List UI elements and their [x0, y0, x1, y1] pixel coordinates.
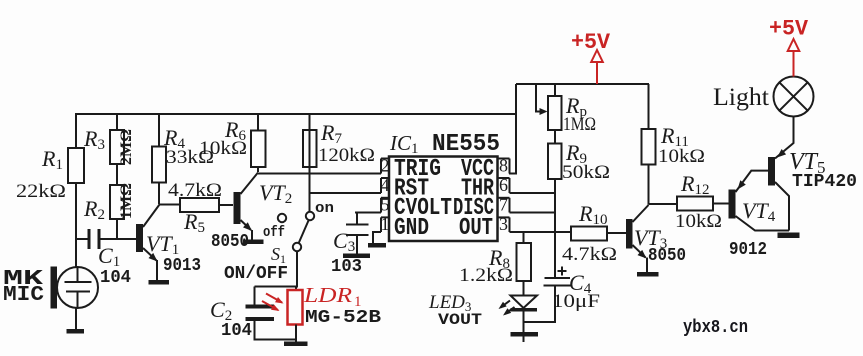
resistor R1 — [68, 114, 84, 268]
op-amp U1 body: IC1 NE555 box — [389, 157, 498, 242]
label VT4 — [742, 198, 776, 225]
label IC1 NE555 — [389, 131, 500, 158]
value MG-52B — [305, 308, 381, 328]
svg-text:4: 4 — [381, 175, 390, 195]
value 9013 — [163, 256, 201, 276]
svg-text:1MΩ: 1MΩ — [118, 183, 135, 219]
label Rp — [565, 93, 587, 120]
svg-text:TIP420: TIP420 — [792, 172, 857, 192]
label LDR1 — [303, 283, 362, 310]
label R12 — [680, 171, 709, 198]
label R10 — [578, 201, 607, 228]
capacitor C3 — [346, 213, 381, 255]
value 120k&#937; — [318, 145, 375, 166]
svg-text:R1: R1 — [41, 146, 63, 173]
svg-text:on: on — [315, 200, 334, 217]
wire VCC drop to pin 8 — [509, 84, 516, 174]
power +5V (right) — [769, 17, 809, 77]
label R2 — [83, 196, 105, 223]
label R5 — [183, 209, 205, 236]
label Light — [713, 84, 769, 111]
svg-text:103: 103 — [331, 257, 362, 277]
label R8 — [488, 245, 510, 272]
transistor VT5 — [768, 117, 794, 231]
svg-text:C2: C2 — [210, 297, 232, 324]
svg-text:3: 3 — [499, 214, 508, 234]
value 104 (C2) — [221, 321, 252, 341]
value 22k&#937; — [16, 181, 66, 202]
capacitor C1 — [76, 229, 136, 249]
label LED3 — [428, 292, 471, 314]
value 104 (C1) — [100, 268, 131, 288]
microphone MK — [51, 267, 99, 309]
pin 2 stub — [381, 156, 390, 176]
svg-text:MG-52B: MG-52B — [305, 308, 381, 328]
resistor R2 1M — [110, 164, 124, 239]
resistor R3 2M — [110, 114, 124, 164]
svg-text:R10: R10 — [578, 201, 607, 228]
label C1 — [98, 243, 120, 270]
svg-text:S1: S1 — [271, 244, 286, 266]
label ON/OFF — [224, 264, 288, 284]
svg-text:104: 104 — [100, 268, 131, 288]
svg-text:7: 7 — [499, 195, 508, 215]
value 10k&#937; (R12) — [675, 211, 722, 232]
label C4 — [569, 270, 592, 297]
pin 7 stub — [498, 195, 510, 215]
wire mic to ground — [75, 308, 77, 330]
svg-text:+5V: +5V — [571, 30, 611, 55]
wire R7 to switch-on contact — [309, 167, 311, 212]
ground (VT2) — [243, 240, 264, 245]
power +5V (left) — [571, 30, 611, 84]
IC pin name VCC — [461, 156, 494, 183]
svg-text:R7: R7 — [320, 120, 342, 147]
resistor R9 — [548, 130, 562, 277]
svg-text:1.2kΩ: 1.2kΩ — [459, 265, 513, 286]
svg-text:4.7kΩ: 4.7kΩ — [168, 180, 222, 201]
ground (VT4/VT5) — [778, 233, 800, 239]
capacitor C4 electrolytic — [524, 267, 573, 323]
svg-text:+5V: +5V — [769, 17, 809, 42]
transistor VT1 — [136, 205, 160, 282]
svg-text:OUT: OUT — [459, 215, 493, 242]
label C3 — [333, 228, 355, 255]
pin 3 stub — [498, 214, 510, 234]
value 8050 — [211, 232, 249, 252]
svg-text:4.7kΩ: 4.7kΩ — [562, 244, 617, 265]
switch S1 contact on — [306, 212, 314, 220]
label R4 — [163, 125, 185, 152]
label MK MIC — [3, 268, 44, 307]
resistor R4 — [152, 114, 166, 204]
ground (LDR) — [284, 342, 308, 347]
IC pin name TRIG — [394, 156, 441, 183]
svg-text:10kΩ: 10kΩ — [199, 138, 247, 159]
svg-text:R12: R12 — [680, 171, 709, 198]
resistor R11 — [642, 84, 656, 205]
ground (pin1) — [368, 243, 386, 248]
lamp Light — [774, 77, 814, 117]
pin 6 stub — [498, 175, 510, 195]
wire pin4 RST net — [310, 192, 382, 194]
LED LED3 — [511, 281, 538, 342]
IC pin name GND — [394, 215, 429, 242]
value 50k&#937; — [562, 162, 610, 183]
pin 1 stub — [381, 214, 390, 234]
value 103 (C3) — [331, 257, 362, 277]
pin 5 stub — [381, 195, 390, 215]
svg-text:off: off — [263, 224, 285, 241]
svg-text:VT2: VT2 — [259, 180, 292, 207]
value 1.2k&#937; — [459, 265, 513, 286]
label off — [263, 224, 285, 241]
svg-text:Light: Light — [713, 84, 769, 111]
label R9 — [565, 140, 587, 167]
svg-text:VT1: VT1 — [146, 231, 179, 258]
ground (VT1) — [149, 280, 170, 285]
svg-text:10kΩ: 10kΩ — [675, 211, 722, 232]
LDR light arrows — [262, 294, 284, 312]
label S1 — [271, 244, 286, 266]
IC pin name CVOLT — [394, 195, 452, 222]
transistor VT4 — [729, 171, 790, 231]
resistor R5 — [159, 198, 233, 212]
label on — [315, 200, 334, 217]
label VT5 — [789, 149, 826, 177]
IC pin name DISC — [453, 195, 494, 222]
wire pin3 OUT to R10 — [510, 231, 572, 233]
watermark ybx8.cn — [683, 318, 748, 338]
resistor R12 — [649, 197, 729, 211]
svg-text:5: 5 — [381, 195, 390, 215]
capacitor C2 — [246, 287, 297, 340]
ground (C3) — [343, 254, 370, 259]
label VT2 — [259, 180, 292, 207]
wire pin6 THR to R9 node — [510, 192, 556, 194]
value 1M&#937; vertical — [118, 183, 135, 219]
svg-text:ybx8.cn: ybx8.cn — [683, 318, 748, 338]
ground (LED3/C4) — [511, 332, 539, 337]
wire top rail — [75, 113, 517, 115]
LED3 emission arrows — [499, 301, 515, 316]
svg-text:IC1: IC1 — [389, 131, 419, 157]
resistor R10 — [571, 227, 626, 241]
value 4.7k&#937; (R5) — [168, 180, 222, 201]
svg-text:1: 1 — [381, 214, 390, 234]
svg-text:9013: 9013 — [163, 256, 201, 276]
label VOUT — [438, 311, 482, 329]
label R6 — [224, 117, 246, 144]
value TIP420 — [792, 172, 857, 192]
svg-text:104: 104 — [221, 321, 252, 341]
svg-text:2MΩ: 2MΩ — [118, 129, 135, 165]
resistor R6 — [251, 114, 266, 172]
wire +5V rail — [516, 83, 649, 85]
IC pin name OUT — [459, 215, 493, 242]
value 1M&#937; (Rp) — [563, 114, 596, 135]
value 10uF — [552, 291, 600, 312]
resistor R8 — [517, 232, 532, 281]
wire pin7 DISC to R9 node — [510, 212, 556, 214]
value 2M&#937; vertical — [118, 129, 135, 165]
IC pin name RST — [394, 176, 429, 203]
svg-text:6: 6 — [499, 175, 508, 195]
ground (VT3) — [637, 272, 659, 277]
svg-text:8050: 8050 — [648, 246, 686, 266]
svg-text:8: 8 — [499, 156, 508, 176]
ground (mic) — [67, 329, 85, 334]
svg-text:LDR: LDR — [303, 283, 352, 307]
value 8050 (VT3) — [648, 246, 686, 266]
svg-text:C1: C1 — [98, 243, 120, 270]
label R3 — [83, 126, 105, 153]
svg-text:10μF: 10μF — [552, 291, 600, 312]
pin 8 stub — [498, 156, 510, 176]
svg-text:2: 2 — [381, 156, 390, 176]
transistor VT3 — [626, 205, 649, 273]
svg-text:1MΩ: 1MΩ — [563, 114, 596, 135]
svg-text:50kΩ: 50kΩ — [562, 162, 610, 183]
svg-text:VOUT: VOUT — [438, 311, 482, 329]
transistor VT2 — [234, 173, 259, 241]
photoresistor LDR1 — [288, 290, 303, 342]
wire pin1 GND — [373, 232, 381, 243]
label VT3 — [634, 225, 667, 252]
resistor R7 — [303, 114, 317, 167]
svg-text:NE555: NE555 — [432, 131, 500, 158]
value 4.7k&#937; (R10) — [562, 244, 617, 265]
wire S1 to LDR/C2 node — [255, 252, 298, 291]
label VT1 — [146, 231, 179, 258]
label R7 — [320, 120, 342, 147]
label R11 — [660, 123, 689, 150]
switch S1 pole — [293, 221, 309, 252]
value 10k&#937; (R6) — [199, 138, 247, 159]
svg-text:120kΩ: 120kΩ — [318, 145, 375, 166]
svg-text:ON/OFF: ON/OFF — [224, 264, 288, 284]
label C2 — [210, 297, 232, 324]
svg-text:VT4: VT4 — [742, 198, 776, 225]
svg-text:MIC: MIC — [3, 284, 44, 307]
wire pin2 TRIG net — [258, 173, 381, 175]
svg-text:R2: R2 — [83, 196, 105, 223]
label R1 — [41, 146, 63, 173]
value 9012 — [729, 240, 767, 260]
IC pin name THR — [461, 176, 494, 203]
switch S1 contact off — [278, 214, 286, 222]
svg-text:10kΩ: 10kΩ — [658, 146, 705, 167]
svg-text:GND: GND — [394, 215, 429, 242]
value 33k&#937; — [166, 147, 214, 168]
value 10k&#937; (R11) — [658, 146, 705, 167]
svg-text:9012: 9012 — [729, 240, 767, 260]
svg-text:R5: R5 — [183, 209, 205, 236]
pin 4 stub — [381, 175, 390, 195]
svg-text:C3: C3 — [333, 228, 355, 255]
svg-text:R3: R3 — [83, 126, 105, 153]
potentiometer Rp — [536, 84, 562, 130]
svg-text:22kΩ: 22kΩ — [16, 181, 66, 202]
